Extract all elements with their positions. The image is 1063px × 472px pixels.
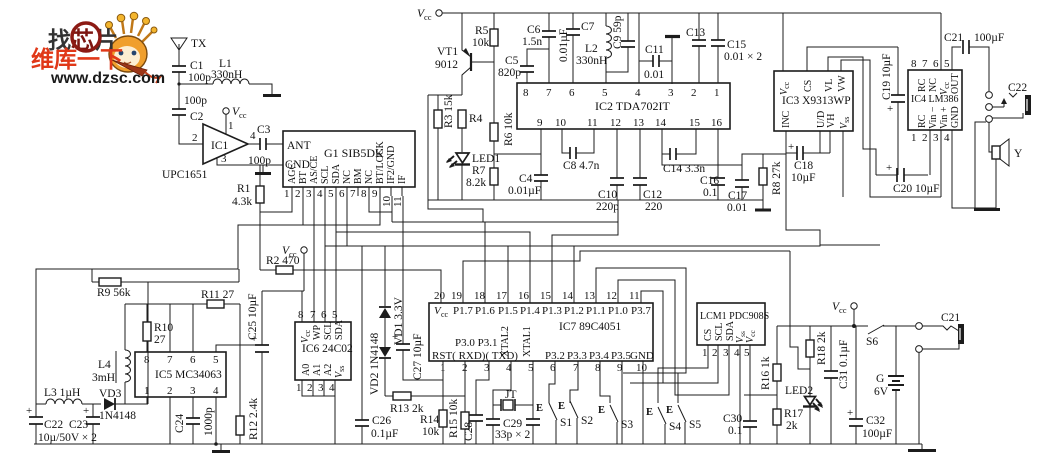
svg-text:C8 4.7n: C8 4.7n (563, 160, 600, 172)
svg-text:R8 27k: R8 27k (771, 161, 783, 195)
IC U3 X9313WP box (774, 71, 853, 131)
svg-text:C2: C2 (190, 111, 204, 123)
svg-text:UPC1651: UPC1651 (162, 169, 208, 181)
capacitor C7 (558, 13, 595, 83)
svg-text:10k: 10k (422, 426, 440, 438)
svg-text:0.01 × 2: 0.01 × 2 (724, 51, 762, 63)
svg-text:5: 5 (328, 188, 334, 200)
svg-text:2: 2 (922, 132, 928, 144)
resistor R13 2k (385, 392, 465, 415)
inductor L2 (576, 13, 612, 83)
LCD module LCM1 PDC908S (697, 303, 769, 359)
zener diode VD1 3.3V (379, 296, 405, 347)
svg-text:P1.2: P1.2 (564, 305, 584, 317)
wire R9 right end up to BT bus (238, 269, 240, 282)
capacitor C5 (498, 49, 549, 83)
svg-text:8: 8 (911, 58, 917, 70)
svg-text:16: 16 (518, 290, 530, 302)
wire Vcc line to IC7 pin20 (304, 270, 441, 303)
svg-text:P1.4: P1.4 (520, 305, 540, 317)
svg-text:0.01: 0.01 (644, 69, 664, 81)
wire IC3 Vcc pin to rail (782, 13, 784, 71)
wire IC3 VH pin stub (829, 131, 831, 153)
resistor R11 27 (201, 289, 234, 308)
wire IC5 pin4 down (215, 397, 217, 444)
resistor R4 (458, 110, 483, 152)
svg-text:E: E (646, 407, 653, 418)
resistor R2 470 (260, 255, 304, 274)
ground (IC5) (220, 444, 222, 450)
svg-text:VL: VL (824, 79, 835, 92)
svg-text:IF2/GND: IF2/GND (386, 146, 397, 184)
wire IC3 Vss pin down to VW line (842, 131, 844, 197)
svg-text:ANT: ANT (287, 140, 311, 152)
svg-text:C18: C18 (794, 160, 813, 172)
svg-text:NC: NC (364, 170, 375, 184)
svg-text:C23: C23 (69, 419, 88, 431)
wire IC6 Vcc pin8 up to R2 node (301, 291, 303, 322)
svg-text:8.2k: 8.2k (466, 177, 486, 189)
svg-text:C12: C12 (643, 189, 662, 201)
G1 pin labels (rotated) (287, 140, 408, 184)
svg-text:C16: C16 (700, 175, 719, 187)
svg-text:12: 12 (606, 290, 617, 302)
resistor R7 8.2k (466, 165, 498, 200)
svg-text:1N4148: 1N4148 (99, 410, 136, 422)
svg-text:S3: S3 (621, 419, 633, 431)
wire IC7 pin10 GND down (642, 361, 644, 444)
capacitor C6 (522, 13, 556, 83)
wire IC5 pin5 to C25 (216, 345, 262, 352)
svg-text:IC3 X9313WP: IC3 X9313WP (782, 95, 851, 107)
svg-text:AGC: AGC (287, 163, 298, 184)
svg-text:100p: 100p (188, 72, 211, 84)
svg-text:15: 15 (689, 117, 701, 129)
svg-text:C22: C22 (44, 419, 63, 431)
wire IC5 pin2 down (169, 397, 171, 444)
svg-text:AS/CE: AS/CE (309, 156, 320, 184)
svg-text:6: 6 (321, 309, 327, 321)
svg-text:11: 11 (392, 196, 404, 207)
svg-text:GND: GND (950, 106, 961, 128)
wire IC7 pin1 RST / R14 column (442, 361, 444, 410)
svg-text:11: 11 (629, 290, 640, 302)
svg-text:11: 11 (587, 117, 598, 129)
wire IC7 pin12 to LCM1 SDA (618, 280, 729, 395)
capacitor C32 (polar) (847, 326, 892, 444)
tuner module G1 SIB5DK (283, 131, 415, 187)
wire branch C26 column (361, 246, 363, 420)
svg-text:R4: R4 (469, 113, 483, 125)
ground (IC4 pin4) (974, 208, 1000, 211)
svg-text:C30: C30 (723, 413, 742, 425)
svg-text:R18 2k: R18 2k (816, 331, 828, 365)
svg-text:5: 5 (332, 309, 338, 321)
svg-text:IC6 24C02: IC6 24C02 (302, 343, 353, 355)
svg-text:SCL: SCL (323, 322, 334, 340)
svg-text:C24: C24 (174, 414, 186, 433)
capacitor C25 (polar) (247, 291, 269, 444)
LED1 (446, 153, 500, 200)
svg-text:BM: BM (353, 168, 364, 184)
wire IC5 pin7 up (169, 304, 171, 352)
svg-text:8: 8 (144, 354, 150, 366)
svg-text:LED2: LED2 (785, 385, 813, 397)
svg-text:cc: cc (424, 12, 432, 22)
svg-text:13: 13 (584, 290, 596, 302)
svg-text:3mH: 3mH (92, 372, 115, 384)
svg-text:cc: cc (289, 249, 297, 259)
wire IC3 VL pin path to C20 (828, 57, 876, 175)
svg-text:C6: C6 (527, 24, 541, 36)
svg-text:2: 2 (167, 385, 173, 397)
svg-text:0.01µF: 0.01µF (558, 29, 570, 62)
svg-text:cc: cc (839, 305, 847, 315)
resistor R3 15k (434, 94, 455, 200)
svg-text:IC4 LM386: IC4 LM386 (911, 94, 959, 105)
svg-text:C9 59p: C9 59p (612, 15, 624, 49)
svg-text:6: 6 (339, 188, 345, 200)
svg-text:10: 10 (555, 117, 567, 129)
wire G1 pin1 AGC to R1 (260, 196, 292, 212)
svg-text:C20 10µF: C20 10µF (893, 183, 940, 195)
svg-text:C19 10µF: C19 10µF (881, 53, 893, 100)
wire IC7 pin13 to S5 (596, 268, 686, 403)
svg-text:20: 20 (434, 290, 446, 302)
svg-text:2: 2 (712, 347, 718, 359)
svg-text:P1.5: P1.5 (498, 305, 518, 317)
wire y209 link (428, 200, 483, 222)
svg-text:G: G (876, 373, 884, 385)
capacitor C19 (polar) (881, 47, 905, 175)
svg-text:C28: C28 (463, 422, 475, 441)
svg-text:L2: L2 (585, 43, 598, 55)
svg-text:0.01µF: 0.01µF (508, 185, 541, 197)
resistor R14 10k (420, 410, 447, 444)
svg-text:C4: C4 (519, 173, 533, 185)
G1 pin stubs and numbers (284, 187, 404, 207)
svg-text:4: 4 (944, 132, 950, 144)
svg-text:P1.0: P1.0 (608, 305, 628, 317)
resistor R12 2.4k (236, 398, 260, 444)
capacitor C22 (polar) (26, 404, 63, 444)
svg-text:+: + (887, 103, 893, 115)
svg-text:1: 1 (228, 120, 234, 132)
svg-text:P3.7: P3.7 (631, 305, 651, 317)
svg-text:1000p: 1000p (203, 407, 215, 436)
inductor L3 (36, 387, 101, 404)
Vcc terminal (IC1 pin1) (223, 106, 247, 134)
resistor R8 27k (759, 154, 783, 209)
capacitor C21 (944, 32, 1004, 91)
svg-text:P3.4: P3.4 (589, 350, 609, 362)
svg-text:E: E (598, 405, 605, 416)
svg-text:2: 2 (295, 188, 301, 200)
switch S5 (666, 405, 701, 444)
wire IC3 INC column (786, 131, 880, 245)
logo cartoon mascot (106, 12, 161, 83)
bottom ground rail (34, 443, 922, 445)
svg-text:P1.7: P1.7 (453, 305, 473, 317)
ground (after L1) (263, 94, 281, 97)
svg-text:R15 10k: R15 10k (448, 398, 460, 438)
svg-text:RC: RC (917, 114, 928, 128)
svg-text:WP: WP (312, 325, 323, 340)
inductor L4 (92, 304, 131, 404)
svg-text:C21: C21 (941, 312, 960, 324)
svg-text:C32: C32 (866, 415, 885, 427)
plug jack C21 (916, 312, 964, 444)
svg-text:9: 9 (537, 117, 543, 129)
svg-text:820p: 820p (498, 67, 521, 79)
ground (IC1 pin3) (262, 165, 264, 172)
resistor R17 2k (773, 408, 803, 444)
Vcc terminal (R2) (282, 245, 307, 291)
svg-text:3: 3 (221, 153, 227, 165)
svg-text:2: 2 (192, 132, 198, 144)
svg-text:JT: JT (505, 389, 517, 401)
svg-text:1: 1 (911, 132, 917, 144)
svg-text:C31 0.1µF: C31 0.1µF (838, 340, 850, 389)
svg-text:5: 5 (213, 354, 219, 366)
phone jack C22 (986, 82, 1031, 122)
svg-text:220p: 220p (596, 201, 619, 213)
svg-text:2: 2 (691, 87, 697, 99)
capacitor C3 (248, 124, 283, 167)
switch S2 (558, 401, 593, 444)
svg-text:7: 7 (167, 354, 173, 366)
svg-text:C1: C1 (190, 60, 204, 72)
IC U4 LM386 box (908, 58, 962, 144)
svg-text:P3.2: P3.2 (545, 350, 565, 362)
svg-text:C26: C26 (372, 415, 391, 427)
switch S1 (536, 403, 572, 444)
resistor R6 10k (490, 112, 515, 168)
wire G1 pin2 BT long bus to left (36, 196, 303, 417)
svg-text:0.01: 0.01 (727, 202, 747, 214)
wire G1 pin6 to P1.2 bus (346, 196, 348, 246)
svg-text:R3 15k: R3 15k (443, 94, 455, 128)
node: battery Vcc junction (852, 324, 856, 328)
svg-text:6: 6 (190, 354, 196, 366)
wire G1 pin8 BM jog to pin10 column (369, 196, 392, 212)
svg-text:Vin +: Vin + (939, 106, 950, 129)
wire IC7 pin9 down (621, 361, 623, 444)
IC U5 MC34063 box (135, 352, 226, 397)
svg-text:+: + (26, 405, 32, 417)
svg-text:VW: VW (837, 75, 848, 92)
resistor R5 (472, 13, 498, 123)
transistor Q VT1 9012 (435, 13, 471, 95)
wire R16/R17 node left (744, 394, 777, 396)
wire IC3 CS pin up to C19 (807, 47, 898, 71)
wire IC4 pin5 OUT up to C21 (952, 47, 961, 70)
svg-text:S5: S5 (689, 419, 701, 431)
wire rail down to IC4 pin6 (940, 13, 942, 70)
svg-text:www.dzsc.com: www.dzsc.com (50, 70, 165, 87)
svg-text:+: + (392, 331, 398, 343)
ground (below R8) (755, 209, 771, 212)
svg-text:10µF: 10µF (791, 172, 816, 184)
svg-text:9: 9 (372, 188, 378, 200)
svg-text:6V: 6V (874, 386, 889, 398)
svg-text:E: E (558, 401, 565, 412)
svg-text:4: 4 (317, 188, 323, 200)
wire G1 pin4 SCL down to IC6 SCL (324, 196, 326, 322)
wire VD3 line to IC5 pin1 (146, 397, 148, 404)
svg-text:330nH: 330nH (211, 69, 242, 81)
wire IC7 pin8 to S3 (600, 361, 610, 403)
capacitor C4 (508, 173, 548, 200)
svg-text:100p: 100p (184, 95, 207, 107)
capacitor C11 (639, 44, 672, 81)
svg-text:R5: R5 (475, 25, 489, 37)
wire VT1 base to R5 column (471, 61, 494, 63)
capacitor C31 (824, 326, 850, 444)
svg-text:C13: C13 (686, 27, 705, 39)
wire G1 pin11 IF down (402, 196, 404, 222)
svg-text:27: 27 (154, 334, 166, 346)
svg-text:R17: R17 (784, 408, 803, 420)
wire G1 pin10 down to IF bus (391, 196, 393, 222)
svg-text:cc: cc (441, 310, 449, 319)
svg-text:NC: NC (928, 78, 939, 92)
svg-text:R9 56k: R9 56k (97, 287, 131, 299)
svg-text:CS: CS (703, 329, 714, 341)
svg-text:GND: GND (630, 350, 654, 362)
wire IC7 pin11 to LCM1 SCL (630, 291, 718, 383)
svg-text:+: + (886, 162, 892, 174)
svg-text:IC2 TDA702IT: IC2 TDA702IT (595, 99, 670, 113)
crystal JT (493, 361, 533, 411)
capacitor C23 (polar) (38, 404, 100, 444)
svg-text:12: 12 (610, 117, 621, 129)
svg-text:OUT: OUT (950, 73, 961, 94)
wire LED2 feed from INC net (790, 251, 810, 369)
svg-text:0.1: 0.1 (728, 425, 743, 437)
svg-text:0.1µF: 0.1µF (371, 428, 398, 440)
wire LCM1 Vcc / C30 (749, 345, 751, 421)
svg-text:R1: R1 (237, 183, 251, 195)
svg-text:3: 3 (318, 382, 324, 394)
svg-text:LCM1 PDC908S: LCM1 PDC908S (700, 311, 769, 322)
wire left vertical to ground rail (427, 95, 429, 200)
svg-text:19: 19 (451, 290, 463, 302)
svg-text:C7: C7 (581, 21, 595, 33)
svg-text:330nH: 330nH (576, 55, 607, 67)
wire branch to IC7 pin14 (573, 246, 575, 303)
svg-text:3: 3 (306, 188, 312, 200)
svg-text:XTAL2: XTAL2 (500, 326, 511, 357)
svg-text:R7: R7 (472, 165, 486, 177)
wire branch VD1 column (384, 246, 386, 306)
svg-text:6: 6 (933, 58, 939, 70)
capacitor C10 on pin12 (596, 129, 624, 213)
svg-text:R6 10k: R6 10k (503, 112, 515, 146)
svg-text:15: 15 (540, 290, 552, 302)
svg-text:14: 14 (655, 117, 667, 129)
svg-text:INC: INC (781, 110, 792, 128)
stub terminal above IC2 pin3 (665, 37, 680, 85)
svg-text:10: 10 (636, 362, 648, 374)
wire SDA bus to IC7 pin16 (336, 232, 530, 303)
node: C1/C2/L1 junction (177, 82, 180, 85)
resistor R16 1k (760, 326, 781, 409)
wire Vcc distribution line y326 (777, 325, 868, 327)
wire jack tip down to speaker (975, 122, 986, 208)
svg-text:IC1: IC1 (211, 140, 229, 152)
svg-text:维库一下: 维库一下 (31, 46, 123, 72)
svg-text:1: 1 (702, 347, 708, 359)
svg-text:Vin −: Vin − (928, 106, 939, 129)
svg-text:IC7 89C4051: IC7 89C4051 (559, 321, 622, 333)
inductor L1 (179, 58, 272, 94)
svg-text:1.5n: 1.5n (522, 36, 542, 48)
resistor R9 56k (92, 269, 239, 299)
diode VD2 1N4148 (369, 332, 391, 396)
svg-text:220: 220 (645, 201, 663, 213)
svg-text:R12 2.4k: R12 2.4k (248, 398, 260, 440)
svg-text:+: + (83, 405, 89, 417)
capacitor C12 on pin13 (633, 129, 663, 213)
wire top Vcc rail (442, 12, 941, 14)
IC2 ground rail (428, 199, 763, 201)
svg-text:IC5 MC34063: IC5 MC34063 (155, 369, 222, 381)
svg-text:P3.3: P3.3 (567, 350, 587, 362)
svg-text:4: 4 (329, 382, 335, 394)
wire SCL bus to IC3 U/D long line (325, 230, 820, 246)
svg-text:P1.3: P1.3 (542, 305, 562, 317)
svg-text:C3: C3 (257, 124, 271, 136)
Vcc terminal (top rail) (417, 8, 442, 22)
capacitor C17 (727, 180, 749, 214)
svg-text:VD2 1N4148: VD2 1N4148 (369, 332, 381, 395)
capacitor C24 on IC5 pin3 (174, 397, 215, 444)
svg-text:7: 7 (310, 309, 316, 321)
wire LCM1 Vss down (739, 345, 741, 444)
node: IC5 pin4 rail junction (214, 442, 218, 446)
svg-text:cc: cc (239, 110, 247, 120)
svg-text:3: 3 (190, 385, 196, 397)
switch S4 (646, 407, 681, 444)
svg-text:P1.6: P1.6 (475, 305, 495, 317)
svg-text:C25 10µF: C25 10µF (247, 293, 259, 340)
svg-text:9012: 9012 (435, 59, 458, 71)
svg-text:TX: TX (191, 38, 207, 50)
svg-text:7: 7 (350, 188, 356, 200)
svg-text:4.3k: 4.3k (232, 196, 252, 208)
svg-text:4: 4 (213, 385, 219, 397)
capacitor C27 (polar) (392, 222, 443, 380)
svg-text:4: 4 (250, 130, 256, 142)
IC U6 24C02 box (295, 309, 353, 394)
svg-text:3: 3 (723, 347, 729, 359)
svg-text:8: 8 (523, 87, 529, 99)
svg-text:SDA: SDA (334, 319, 345, 340)
capacitor C14 between pins 14-15 (662, 129, 705, 175)
svg-text:10k: 10k (472, 37, 490, 49)
svg-text:33p × 2: 33p × 2 (495, 429, 530, 441)
wire G1 pin2 bus to pin9 (303, 196, 380, 225)
capacitor C8 between pins 10-11 (562, 129, 600, 172)
resistor R18 2k (806, 326, 828, 397)
svg-text:C10: C10 (598, 189, 617, 201)
wire IC7 pin7 to S2 (570, 361, 578, 403)
wire IC1 pin3 to GND pin (217, 157, 283, 165)
wire IC3 U/D pin to C18 line (819, 131, 821, 153)
wire IC7 pin6 to S1 (549, 361, 555, 403)
svg-text:R10: R10 (154, 322, 173, 334)
